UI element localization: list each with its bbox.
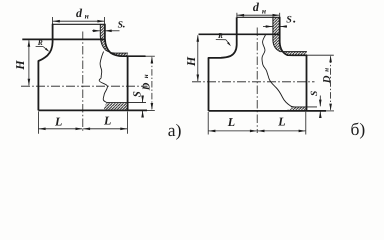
svg-text:S: S <box>118 20 123 30</box>
svg-text:H: H <box>184 56 198 67</box>
svg-text:R: R <box>37 38 43 47</box>
tee A: dimension D_n <box>151 57 153 109</box>
tee A: run left end face <box>37 61 39 110</box>
svg-text:L: L <box>277 114 285 128</box>
tee B: branch top face <box>237 16 280 18</box>
tee B: branch left wall and shoulder <box>209 34 237 58</box>
tee B: run left end face <box>208 58 210 111</box>
tee B: dimension S of branch wall <box>263 26 273 28</box>
tee A: branch extension lines <box>52 17 54 24</box>
tee B: bore bottom line <box>291 106 317 108</box>
tee B: dimension L right <box>258 130 306 132</box>
svg-text:L: L <box>54 115 62 129</box>
tee B: branch extension lines <box>236 13 238 17</box>
tee A: branch right inner wall <box>100 24 127 53</box>
tee A: branch top face <box>53 23 105 25</box>
svg-text:S: S <box>310 91 320 96</box>
svg-text:L: L <box>227 115 235 129</box>
tee A: dimension S of branch wall <box>92 30 100 32</box>
svg-text:н: н <box>323 68 331 72</box>
tee B: run right end face <box>306 55 308 111</box>
svg-text:R: R <box>217 31 223 40</box>
tee B: dimension H <box>197 35 199 81</box>
tee B: branch axis line <box>256 28 258 134</box>
tee B: bottom wall hatching <box>286 107 306 111</box>
tee A: bore bottom line <box>107 102 146 104</box>
svg-text:d: d <box>76 6 83 20</box>
tee A: wavy break line of local section <box>99 52 107 103</box>
svg-text:б): б) <box>351 119 366 139</box>
tee A: dimension S of run wall <box>142 96 144 103</box>
svg-text:D: D <box>322 75 333 84</box>
tee A: dimension L left <box>39 128 83 130</box>
svg-text:H: H <box>13 60 27 71</box>
tee A: run bottom line <box>38 109 147 111</box>
svg-text:н: н <box>142 74 150 78</box>
svg-text:S: S <box>286 14 292 25</box>
svg-text:н: н <box>262 6 266 15</box>
tee A: dimension H <box>28 40 30 85</box>
tee A: branch end face line <box>22 38 105 40</box>
tee B: branch end face line <box>199 33 280 35</box>
tee B: branch right outer wall and run top <box>280 17 307 55</box>
tee B: dimension D_n <box>330 56 332 109</box>
tee B: dimension S of run wall <box>319 96 321 107</box>
tee A: run axis line <box>21 85 148 87</box>
tee A: extension lines for L <box>37 112 39 134</box>
tee B: branch right inner wall <box>273 17 307 51</box>
svg-text:S: S <box>131 91 143 97</box>
tee B: wavy break line of local section <box>262 34 296 107</box>
tee A: dimension d_n <box>53 20 104 22</box>
tee B: extension lines for L <box>207 112 209 135</box>
tee B: dimension L left <box>209 130 257 132</box>
tee A: branch left wall and shoulder <box>38 24 52 61</box>
svg-text:d: d <box>253 0 260 14</box>
tee B: run axis line <box>192 81 315 83</box>
svg-text:D: D <box>142 82 153 91</box>
tee A: run right end face <box>127 56 129 110</box>
tee A: branch right outer wall and run top <box>105 24 145 56</box>
tee A: bottom wall hatching <box>104 103 127 110</box>
svg-text:н: н <box>85 11 89 20</box>
tee B: branch left wall upper <box>236 17 238 34</box>
tee B: dimension d_n <box>237 14 279 16</box>
svg-text:L: L <box>103 114 111 128</box>
tee B: run bottom line <box>209 110 327 112</box>
tee A: branch axis line <box>82 32 84 132</box>
tee A: dimension L right <box>83 128 127 130</box>
svg-text:а): а) <box>168 120 182 140</box>
